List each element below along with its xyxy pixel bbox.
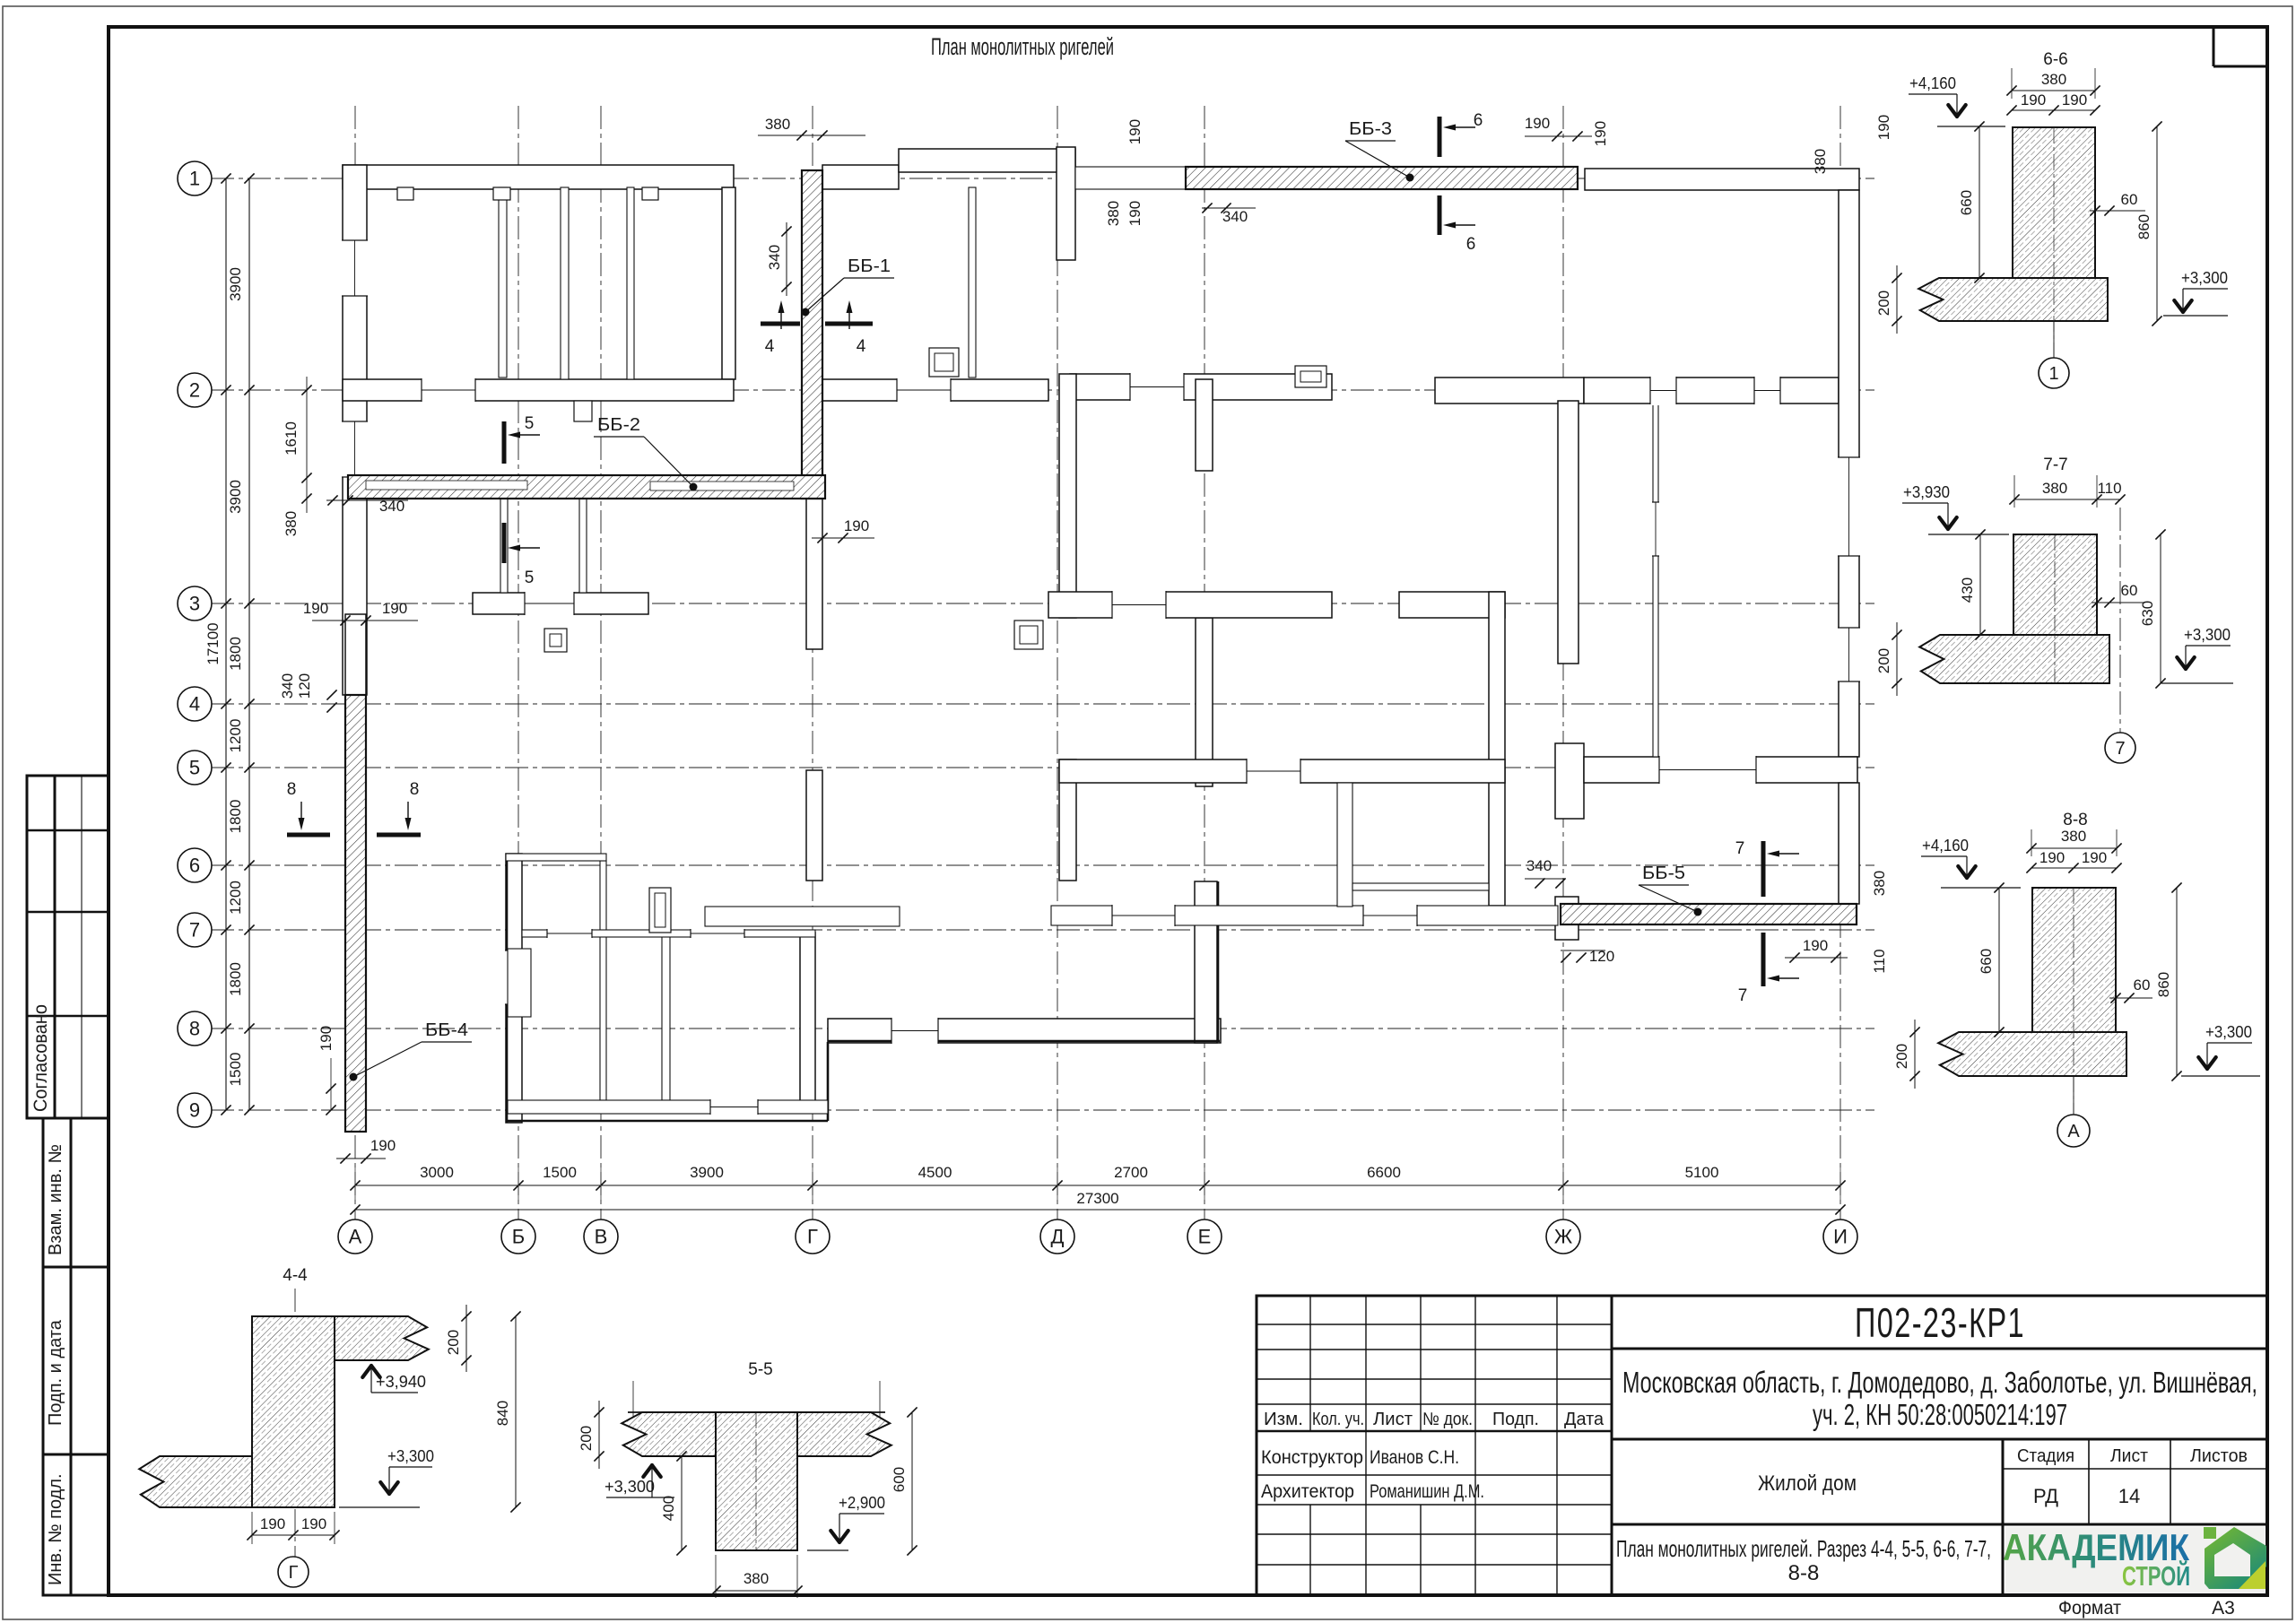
- svg-text:340: 340: [766, 245, 783, 270]
- 6-6 dim 860: [2156, 126, 2158, 321]
- svg-text:190: 190: [301, 1515, 326, 1532]
- svg-text:5: 5: [525, 414, 535, 433]
- svg-text:+3,300: +3,300: [2184, 626, 2231, 644]
- wall: [822, 379, 1048, 401]
- svg-text:630: 630: [2139, 601, 2156, 626]
- wall: [1059, 759, 1505, 783]
- svg-text:Жилой дом: Жилой дом: [1758, 1471, 1857, 1496]
- bay window niche: [508, 949, 531, 1017]
- svg-text:4-4: 4-4: [283, 1266, 308, 1285]
- label BB-2: [690, 483, 698, 491]
- svg-text:600: 600: [891, 1467, 908, 1492]
- axis bubble 2: [178, 373, 212, 407]
- axis bubble В: [584, 1219, 618, 1254]
- svg-text:60: 60: [2121, 191, 2138, 208]
- svg-text:ББ-1: ББ-1: [848, 256, 891, 276]
- svg-text:380: 380: [1105, 201, 1122, 226]
- svg-text:4: 4: [189, 693, 200, 716]
- wall: [722, 187, 735, 379]
- svg-text:П02-23-КР1: П02-23-КР1: [1855, 1299, 2025, 1346]
- svg-text:+3,930: +3,930: [1903, 483, 1950, 501]
- svg-text:Инв. № подл.: Инв. № подл.: [46, 1473, 65, 1585]
- project code cell: [1612, 1348, 2267, 1350]
- svg-text:840: 840: [494, 1401, 511, 1426]
- wall: [1057, 147, 1075, 260]
- 5-5 dim 200: [598, 1401, 600, 1469]
- wall: [1555, 743, 1584, 819]
- svg-text:Лист: Лист: [1373, 1410, 1413, 1429]
- 7-7 dim 60: [2092, 602, 2145, 603]
- wall: [806, 401, 822, 475]
- svg-text:Стадия: Стадия: [2017, 1446, 2074, 1466]
- svg-text:380: 380: [283, 511, 300, 536]
- svg-text:1200: 1200: [227, 881, 244, 915]
- svg-text:190: 190: [317, 1026, 335, 1051]
- axis bubble И: [1823, 1219, 1857, 1254]
- wall: [1196, 618, 1213, 786]
- 5-5 dim 400: [681, 1456, 683, 1550]
- partition wall: [627, 187, 634, 379]
- 7-7 column: [2013, 534, 2097, 635]
- wall: [1070, 374, 1332, 400]
- svg-text:СТРОЙ: СТРОЙ: [2122, 1559, 2190, 1592]
- logo house icon: [2204, 1527, 2266, 1589]
- svg-text:400: 400: [660, 1496, 677, 1521]
- svg-text:190: 190: [2062, 91, 2087, 108]
- svg-text:340: 340: [279, 673, 296, 699]
- wall: [1048, 592, 1332, 618]
- sheet name cell: [1612, 1523, 2267, 1526]
- svg-text:200: 200: [578, 1426, 595, 1451]
- 4-4 ref circle G: [278, 1557, 309, 1587]
- wall: [343, 165, 734, 189]
- svg-text:1500: 1500: [227, 1053, 244, 1087]
- axis bubble Ж: [1546, 1219, 1580, 1254]
- 6-6 dim 200: [1896, 265, 1898, 334]
- 8-8 ref circle A: [2073, 1076, 2074, 1114]
- partition wall: [969, 187, 976, 378]
- wall: [343, 379, 734, 401]
- partition wall: [1337, 783, 1352, 907]
- frame corner box top-right: [2213, 27, 2215, 66]
- wall: [806, 770, 822, 881]
- svg-text:Г: Г: [289, 1563, 299, 1583]
- axis bubble 7: [178, 913, 212, 947]
- wall: [822, 165, 899, 189]
- svg-text:7-7: 7-7: [2043, 456, 2067, 474]
- svg-text:7: 7: [2115, 739, 2125, 759]
- svg-text:1610: 1610: [283, 421, 300, 456]
- svg-text:340: 340: [1526, 857, 1552, 874]
- svg-text:190: 190: [370, 1137, 396, 1154]
- 7-7 dim 430: [1979, 534, 1981, 635]
- axis bubble Г: [796, 1219, 830, 1254]
- 6-6 column: [2013, 127, 2095, 278]
- svg-text:ББ-3: ББ-3: [1349, 119, 1392, 139]
- section cut 5-5: [502, 421, 507, 464]
- label BB-3: [1406, 174, 1414, 182]
- svg-text:уч. 2, КН 50:28:0050214:197: уч. 2, КН 50:28:0050214:197: [1813, 1398, 2067, 1431]
- svg-text:Иванов С.Н.: Иванов С.Н.: [1370, 1447, 1459, 1468]
- axis bubble 9: [178, 1093, 212, 1127]
- wall: [473, 593, 648, 614]
- 7-7 ref circle 7: [2119, 508, 2121, 733]
- beam BB-5: [1561, 904, 1857, 924]
- svg-text:14: 14: [2118, 1485, 2140, 1507]
- svg-text:190: 190: [2082, 849, 2107, 866]
- wall: [800, 933, 815, 1112]
- svg-text:3900: 3900: [227, 267, 244, 301]
- svg-text:380: 380: [1871, 871, 1888, 896]
- wall: [1059, 374, 1076, 618]
- svg-text:2700: 2700: [1114, 1164, 1148, 1181]
- svg-text:7: 7: [1735, 839, 1745, 858]
- svg-text:380: 380: [2061, 828, 2086, 845]
- svg-text:Взам. инв. №: Взам. инв. №: [46, 1144, 65, 1255]
- axis bubble Е: [1187, 1219, 1222, 1254]
- 5-5 dim 600: [911, 1412, 913, 1550]
- left dimension chain lines: [225, 178, 227, 1110]
- svg-text:200: 200: [1875, 648, 1892, 673]
- svg-text:3900: 3900: [690, 1164, 724, 1181]
- svg-text:200: 200: [1875, 291, 1892, 316]
- 4-4 dim 200: [465, 1305, 467, 1372]
- 8-8 column: [2032, 888, 2116, 1032]
- partition wall: [705, 907, 900, 926]
- 5-5 top slab line: [628, 1411, 885, 1413]
- svg-text:А: А: [349, 1226, 362, 1248]
- svg-text:Листов: Листов: [2190, 1446, 2248, 1466]
- svg-text:4: 4: [765, 337, 775, 356]
- stage/sheet header cells: [2003, 1468, 2267, 1470]
- svg-text:1800: 1800: [227, 800, 244, 834]
- 4-4 slab left: [139, 1456, 252, 1507]
- partition wall: [662, 933, 670, 1100]
- svg-text:380: 380: [2042, 480, 2067, 497]
- svg-text:860: 860: [2135, 214, 2152, 239]
- wall: [1555, 897, 1578, 940]
- svg-text:190: 190: [303, 600, 328, 617]
- axis bubble 6: [178, 848, 212, 882]
- section cut 4-4: [761, 322, 800, 326]
- partition wall: [522, 930, 815, 937]
- wall: [828, 1019, 1221, 1043]
- partition wall: [499, 187, 507, 378]
- svg-text:Романишин Д.М.: Романишин Д.М.: [1370, 1481, 1484, 1502]
- svg-text:+4,160: +4,160: [1909, 74, 1956, 92]
- svg-text:6600: 6600: [1367, 1164, 1401, 1181]
- svg-text:380: 380: [765, 116, 790, 133]
- svg-text:План монолитных ригелей: План монолитных ригелей: [931, 33, 1114, 60]
- svg-text:5: 5: [525, 568, 535, 587]
- partition wall: [500, 499, 508, 593]
- wall: [1839, 783, 1859, 904]
- svg-text:380: 380: [1812, 149, 1829, 174]
- axis bubble 4: [178, 687, 212, 721]
- 6-6 dim 660: [1979, 126, 1980, 278]
- object cell: Жилой дом: [2002, 1439, 2005, 1595]
- svg-text:Московская область, г. Домодед: Московская область, г. Домодедово, д. За…: [1622, 1366, 2257, 1399]
- horizontal grid axis lines: [211, 178, 1874, 179]
- vertical grid axis lines: [354, 106, 356, 1219]
- exterior contour thick lines: [506, 854, 509, 1123]
- svg-text:Б: Б: [512, 1226, 525, 1248]
- svg-text:8: 8: [410, 780, 420, 799]
- svg-text:190: 190: [1126, 201, 1144, 226]
- svg-text:+4,160: +4,160: [1922, 837, 1969, 855]
- beam BB-3: [1186, 167, 1578, 189]
- axis bubble Д: [1040, 1219, 1074, 1254]
- 6-6 ref circle 1: [2053, 321, 2055, 358]
- ventilation shafts: [929, 348, 959, 377]
- svg-text:190: 190: [1525, 115, 1550, 132]
- svg-text:190: 190: [1875, 115, 1892, 140]
- svg-text:Конструктор: Конструктор: [1261, 1447, 1363, 1468]
- svg-text:Д: Д: [1051, 1226, 1065, 1248]
- svg-text:60: 60: [2121, 582, 2138, 599]
- svg-text:Формат: Формат: [2058, 1598, 2121, 1619]
- svg-text:190: 190: [1803, 937, 1828, 954]
- 8-8 dim 660: [1998, 888, 2000, 1032]
- svg-text:А: А: [2067, 1122, 2080, 1141]
- wall: [1585, 169, 1859, 190]
- wall: [1584, 378, 1839, 404]
- 7-7 dim 200: [1896, 622, 1898, 696]
- sidebar box Подп. и дата: [43, 1267, 109, 1454]
- beam BB-2: [348, 475, 825, 499]
- svg-text:8: 8: [189, 1018, 200, 1040]
- bottom dimension chain: [355, 1185, 1840, 1186]
- svg-text:+3,300: +3,300: [387, 1447, 434, 1465]
- partition wall: [579, 499, 587, 593]
- sidebar box Инв. № подл.: [43, 1454, 109, 1595]
- svg-text:РД: РД: [2033, 1485, 2058, 1507]
- svg-text:ББ-4: ББ-4: [425, 1020, 468, 1040]
- svg-text:ББ-2: ББ-2: [597, 415, 640, 435]
- 7-7 dim 630: [2160, 534, 2161, 683]
- svg-text:Подп.: Подп.: [1492, 1410, 1539, 1429]
- partition wall: [1352, 883, 1489, 890]
- svg-text:4: 4: [857, 337, 866, 356]
- svg-text:380: 380: [744, 1570, 769, 1587]
- sidebar approvals table: [27, 776, 109, 1118]
- svg-text:27300: 27300: [1076, 1190, 1118, 1207]
- wall: [1839, 190, 1859, 757]
- axis bubble 1: [178, 161, 212, 195]
- 4-4 column: [252, 1316, 335, 1507]
- svg-text:6: 6: [1466, 235, 1476, 254]
- svg-text:Кол. уч.: Кол. уч.: [1312, 1410, 1364, 1429]
- plan sub-dimensions: [758, 135, 865, 136]
- svg-text:3900: 3900: [227, 480, 244, 514]
- svg-text:110: 110: [1871, 949, 1888, 973]
- svg-text:1800: 1800: [227, 962, 244, 996]
- axis bubble 8: [178, 1011, 212, 1046]
- svg-text:17100: 17100: [204, 622, 222, 664]
- svg-text:План монолитных ригелей. Разре: План монолитных ригелей. Разрез 4-4, 5-5…: [1616, 1535, 1991, 1562]
- wall: [806, 499, 822, 649]
- svg-text:8-8: 8-8: [1788, 1561, 1820, 1585]
- logo cell: [2005, 1527, 2265, 1593]
- title block revision table: [1309, 1296, 1311, 1431]
- svg-text:190: 190: [2039, 849, 2065, 866]
- 4-4 slab right: [335, 1316, 429, 1360]
- section cut 8-8: [287, 833, 330, 838]
- partition wall: [508, 1100, 828, 1114]
- svg-text:7: 7: [1738, 986, 1748, 1005]
- beam BB-4: [345, 695, 366, 1132]
- partition wall: [1653, 404, 1658, 757]
- svg-text:6: 6: [1474, 111, 1483, 130]
- svg-text:+3,300: +3,300: [2181, 269, 2228, 287]
- partition wall: [1075, 167, 1186, 189]
- svg-text:60: 60: [2134, 976, 2151, 994]
- svg-text:660: 660: [1958, 190, 1975, 215]
- svg-text:8-8: 8-8: [2063, 811, 2087, 829]
- svg-text:190: 190: [1126, 119, 1144, 144]
- sidebar box Взам. инв. №: [43, 1118, 109, 1267]
- address cell: [1612, 1438, 2267, 1441]
- svg-text:+2,900: +2,900: [839, 1494, 885, 1512]
- svg-text:+3,300: +3,300: [604, 1478, 655, 1496]
- wall: [345, 614, 366, 695]
- 5-5 dim 380: [716, 1590, 797, 1592]
- wall: [1059, 759, 1076, 881]
- label BB-4: [350, 1073, 358, 1081]
- svg-text:1200: 1200: [227, 719, 244, 753]
- svg-text:В: В: [595, 1226, 608, 1248]
- svg-text:Подп. и дата: Подп. и дата: [46, 1319, 65, 1426]
- svg-text:И: И: [1833, 1226, 1848, 1248]
- svg-text:А3: А3: [2212, 1598, 2235, 1619]
- svg-text:1500: 1500: [543, 1164, 577, 1181]
- svg-text:190: 190: [844, 517, 869, 534]
- svg-text:Дата: Дата: [1564, 1410, 1605, 1429]
- 7-7 slab: [1919, 635, 2109, 683]
- svg-text:120: 120: [296, 673, 313, 699]
- 5-5 beam rib: [716, 1412, 797, 1550]
- svg-text:3000: 3000: [420, 1164, 454, 1181]
- 4-4 dim 840: [515, 1316, 517, 1507]
- svg-text:3: 3: [189, 593, 200, 615]
- 6-6 slab: [1918, 278, 2108, 321]
- svg-text:340: 340: [1222, 208, 1248, 225]
- svg-text:1800: 1800: [227, 637, 244, 671]
- 8-8 dim 200: [1914, 1020, 1916, 1089]
- svg-text:+3,940: +3,940: [376, 1373, 426, 1391]
- pilasters: [397, 187, 413, 200]
- svg-text:200: 200: [445, 1330, 462, 1355]
- wall: [1195, 881, 1217, 1043]
- svg-text:430: 430: [1959, 577, 1976, 603]
- svg-text:200: 200: [1893, 1044, 1910, 1069]
- svg-text:120: 120: [1589, 948, 1614, 965]
- svg-text:9: 9: [189, 1099, 200, 1122]
- svg-text:4500: 4500: [918, 1164, 952, 1181]
- svg-text:340: 340: [379, 498, 404, 515]
- partition wall: [600, 861, 606, 1100]
- svg-text:860: 860: [2155, 972, 2172, 997]
- axis bubble 5: [178, 751, 212, 785]
- section cut 7-7: [1761, 841, 1766, 897]
- svg-text:Изм.: Изм.: [1264, 1410, 1303, 1429]
- 6-6 dim 60: [2090, 210, 2145, 212]
- svg-text:190: 190: [382, 600, 407, 617]
- svg-text:ББ-5: ББ-5: [1642, 864, 1685, 883]
- svg-text:+3,300: +3,300: [2205, 1023, 2252, 1041]
- wall: [1196, 379, 1213, 471]
- wall: [506, 854, 522, 1123]
- svg-text:№ док.: № док.: [1422, 1410, 1473, 1429]
- 4-4 dims 190 190: [252, 1534, 335, 1536]
- svg-text:Архитектор: Архитектор: [1261, 1481, 1354, 1502]
- label BB-1: [802, 308, 810, 317]
- svg-text:Е: Е: [1198, 1226, 1212, 1248]
- partition wall: [1051, 906, 1558, 925]
- svg-text:6: 6: [189, 855, 200, 877]
- wall: [343, 165, 367, 695]
- wall: [899, 149, 1075, 172]
- section cut 6-6: [1438, 117, 1442, 157]
- 5-5 slab: [622, 1412, 891, 1456]
- beam BB-1: [802, 170, 822, 499]
- svg-text:6-6: 6-6: [2043, 50, 2067, 69]
- 5-5 extension lines: [632, 1381, 634, 1417]
- axis bubble Б: [501, 1219, 535, 1254]
- bottom total dim 27300: [355, 1209, 1840, 1211]
- window openings: [341, 240, 369, 296]
- 4-4 axis line: [294, 1289, 296, 1558]
- svg-text:110: 110: [2097, 480, 2121, 497]
- partition wall: [561, 187, 569, 379]
- axis bubble 3: [178, 586, 212, 621]
- wall: [1558, 401, 1578, 664]
- svg-text:2: 2: [189, 379, 200, 402]
- svg-text:5100: 5100: [1685, 1164, 1719, 1181]
- svg-text:7: 7: [189, 919, 200, 942]
- svg-text:Г: Г: [807, 1226, 818, 1248]
- label BB-5: [1694, 908, 1702, 916]
- 8-8 dim 60: [2109, 997, 2152, 999]
- svg-text:8: 8: [287, 780, 297, 799]
- svg-text:Согласовано: Согласовано: [30, 1004, 51, 1112]
- wall: [1399, 592, 1505, 618]
- svg-text:190: 190: [260, 1515, 285, 1532]
- 8-8 dim 860: [2176, 888, 2178, 1076]
- svg-text:1: 1: [2048, 364, 2058, 384]
- svg-text:190: 190: [1592, 121, 1609, 146]
- 8-8 slab: [1938, 1032, 2126, 1076]
- svg-text:380: 380: [2041, 71, 2066, 88]
- svg-text:5: 5: [189, 757, 200, 779]
- title block: [1257, 1296, 2267, 1595]
- wall: [1435, 378, 1584, 404]
- wall: [1489, 592, 1505, 906]
- axis bubble А: [338, 1219, 372, 1254]
- partition wall: [506, 854, 606, 861]
- svg-text:Лист: Лист: [2110, 1446, 2148, 1466]
- wall: [1584, 757, 1857, 783]
- svg-text:Ж: Ж: [1554, 1226, 1573, 1248]
- svg-text:5-5: 5-5: [748, 1360, 772, 1379]
- svg-text:190: 190: [2021, 91, 2046, 108]
- svg-text:660: 660: [1978, 949, 1995, 974]
- svg-text:1: 1: [189, 168, 200, 190]
